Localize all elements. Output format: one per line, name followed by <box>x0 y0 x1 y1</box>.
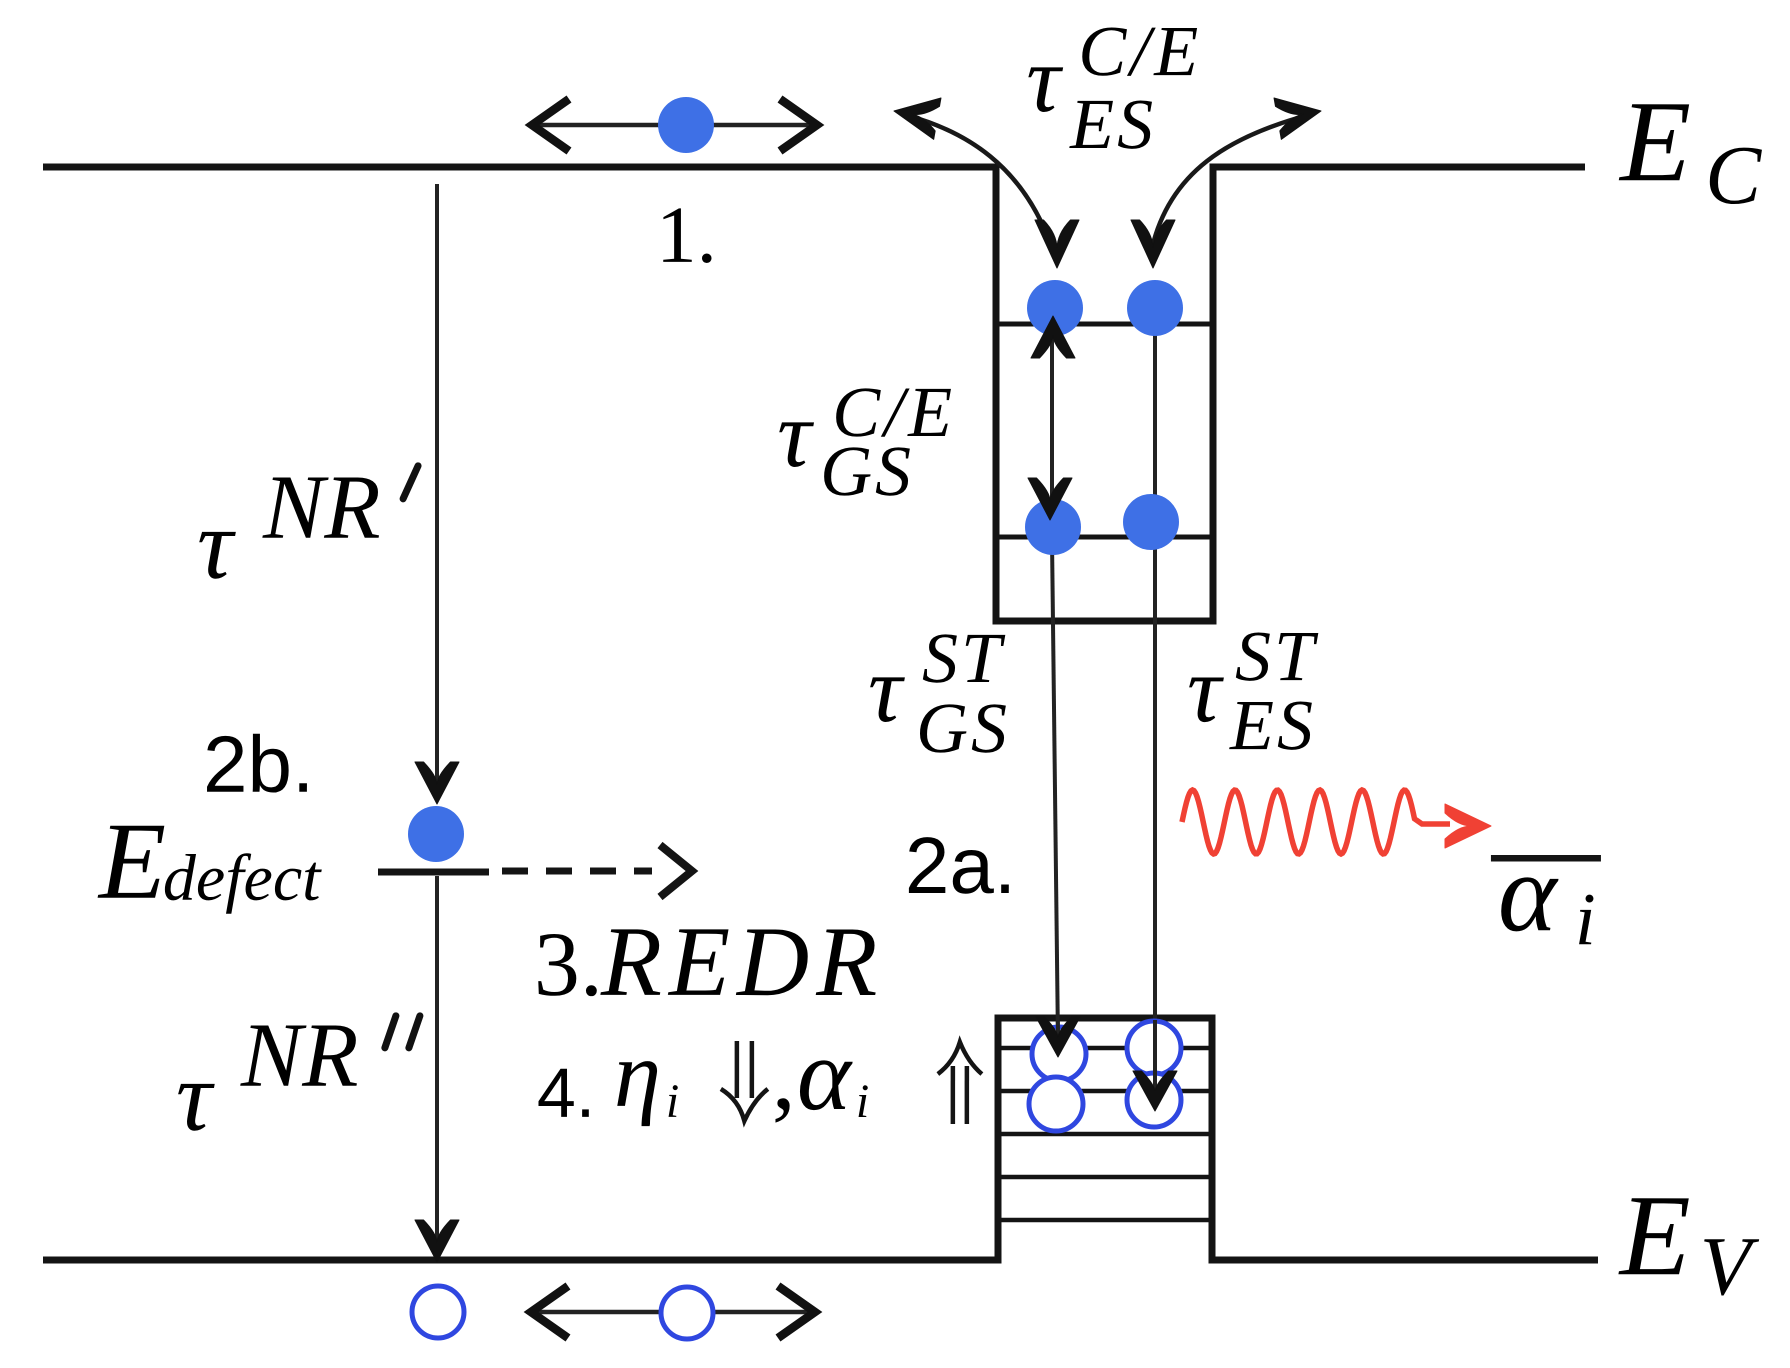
wire tau_NR2 shaft defect to E_V <box>435 876 439 1246</box>
svg-text:,: , <box>772 1023 796 1129</box>
arrowhead right-pointing <box>1274 90 1325 139</box>
hole in valence well second-right <box>1127 1073 1181 1127</box>
defect level E_defect line <box>378 869 489 876</box>
curved capture/escape arrow right (tau_ES C/E) <box>1152 115 1308 248</box>
arrowhead down into well (right) <box>1131 220 1175 268</box>
electron on E_C (blue dot) <box>658 97 714 153</box>
svg-text:τ: τ <box>176 1041 215 1152</box>
svg-text:C/E: C/E <box>1078 11 1202 91</box>
svg-text:τ: τ <box>1026 26 1063 132</box>
svg-text:η: η <box>614 1021 661 1127</box>
svg-text:α: α <box>1498 831 1559 955</box>
ground state level GS <box>999 535 1210 540</box>
hole in valence well top-right <box>1127 1021 1181 1075</box>
valence band E_V with quantum-dot well <box>43 1018 1598 1260</box>
hole well level 4 <box>1001 1175 1209 1180</box>
label alpha_i with overline <box>1491 855 1601 862</box>
arrowhead down to GS <box>1028 478 1072 520</box>
svg-text:i: i <box>856 1075 869 1128</box>
svg-text:τ: τ <box>868 636 905 742</box>
svg-text:C: C <box>1705 129 1762 222</box>
wire tau_GS ST shaft GS to hole well <box>1052 540 1058 1042</box>
double downarrow glyph <box>721 1041 768 1121</box>
svg-text:i: i <box>666 1075 679 1128</box>
arrowhead left-pointing <box>890 90 941 139</box>
svg-text:REDR: REDR <box>600 906 885 1017</box>
prime tick <box>403 466 418 499</box>
red photon wavy arrow <box>1182 790 1450 854</box>
svg-text:E: E <box>1618 78 1691 206</box>
free hole double arrow below E_V <box>535 1310 811 1315</box>
conduction band E_C with quantum-dot well <box>43 167 1585 621</box>
hole below tau_NR2 arrow (open circle) <box>412 1286 464 1338</box>
svg-text:ST: ST <box>922 618 1006 698</box>
arrowhead tau_NR2 down <box>415 1220 459 1262</box>
excited state level ES <box>999 322 1210 327</box>
arrowhead up to ES <box>1031 316 1075 358</box>
electron in GS right <box>1123 494 1179 550</box>
double prime ticks <box>385 1016 396 1048</box>
svg-text:i: i <box>1575 878 1596 961</box>
wire tau_ES ST shaft ES to hole well <box>1153 322 1157 1096</box>
svg-text:3.: 3. <box>534 913 603 1015</box>
svg-text:NR: NR <box>240 1004 359 1106</box>
arrowhead tau_NR1 down <box>415 762 459 804</box>
electron captured on defect (blue dot) <box>408 806 464 862</box>
svg-text:defect: defect <box>163 842 322 915</box>
svg-text:V: V <box>1700 1220 1760 1313</box>
wire tau_NR1 shaft E_C to defect <box>435 184 439 790</box>
wire tau_GS ST shaft overlay inside hole well <box>1056 1020 1060 1042</box>
svg-text:1.: 1. <box>656 190 717 280</box>
svg-text:GS: GS <box>820 431 914 511</box>
dashed arrow from defect level <box>502 868 652 875</box>
svg-text:E: E <box>97 800 166 922</box>
hole well level 5 <box>1001 1218 1209 1223</box>
svg-text:E: E <box>1618 1172 1691 1300</box>
svg-text:α: α <box>797 1018 853 1132</box>
wire tau_ES ST shaft overlay inside hole well <box>1153 1020 1157 1096</box>
free electron double arrow (process 1.) <box>536 123 813 128</box>
svg-text:GS: GS <box>916 688 1010 768</box>
svg-text:ES: ES <box>1229 685 1316 765</box>
electron in ES right <box>1127 280 1183 336</box>
svg-text:τ: τ <box>777 381 814 487</box>
svg-text:τ: τ <box>1187 636 1224 742</box>
arrowhead tau_ES ST <box>1133 1071 1177 1111</box>
svg-text:NR: NR <box>262 456 381 558</box>
hole on E_V (open circle) <box>661 1287 713 1339</box>
double uparrow glyph <box>938 1042 982 1124</box>
dashed arrow chevron head <box>660 845 692 897</box>
arrowhead tau_GS ST <box>1036 1017 1080 1057</box>
svg-text:2a.: 2a. <box>905 821 1016 910</box>
hole well level 2 <box>1001 1089 1209 1094</box>
electron in ES left <box>1027 280 1083 336</box>
curved capture/escape arrow left (tau_ES C/E) <box>906 115 1052 248</box>
svg-text:ES: ES <box>1069 84 1156 164</box>
wire tau_GS C/E double arrow shaft <box>1050 328 1054 512</box>
svg-text:τ: τ <box>197 489 236 600</box>
hole in valence well second-left <box>1029 1077 1083 1131</box>
svg-text:2b.: 2b. <box>203 720 314 809</box>
hole well level 3 <box>1001 1132 1209 1137</box>
hole well level 1 <box>1001 1046 1209 1051</box>
svg-text:4.: 4. <box>537 1054 595 1132</box>
arrowhead down into well (left) <box>1035 220 1079 268</box>
hole in valence well top-left <box>1032 1027 1086 1081</box>
electron in GS left <box>1025 499 1081 555</box>
red arrowhead <box>1445 804 1491 848</box>
